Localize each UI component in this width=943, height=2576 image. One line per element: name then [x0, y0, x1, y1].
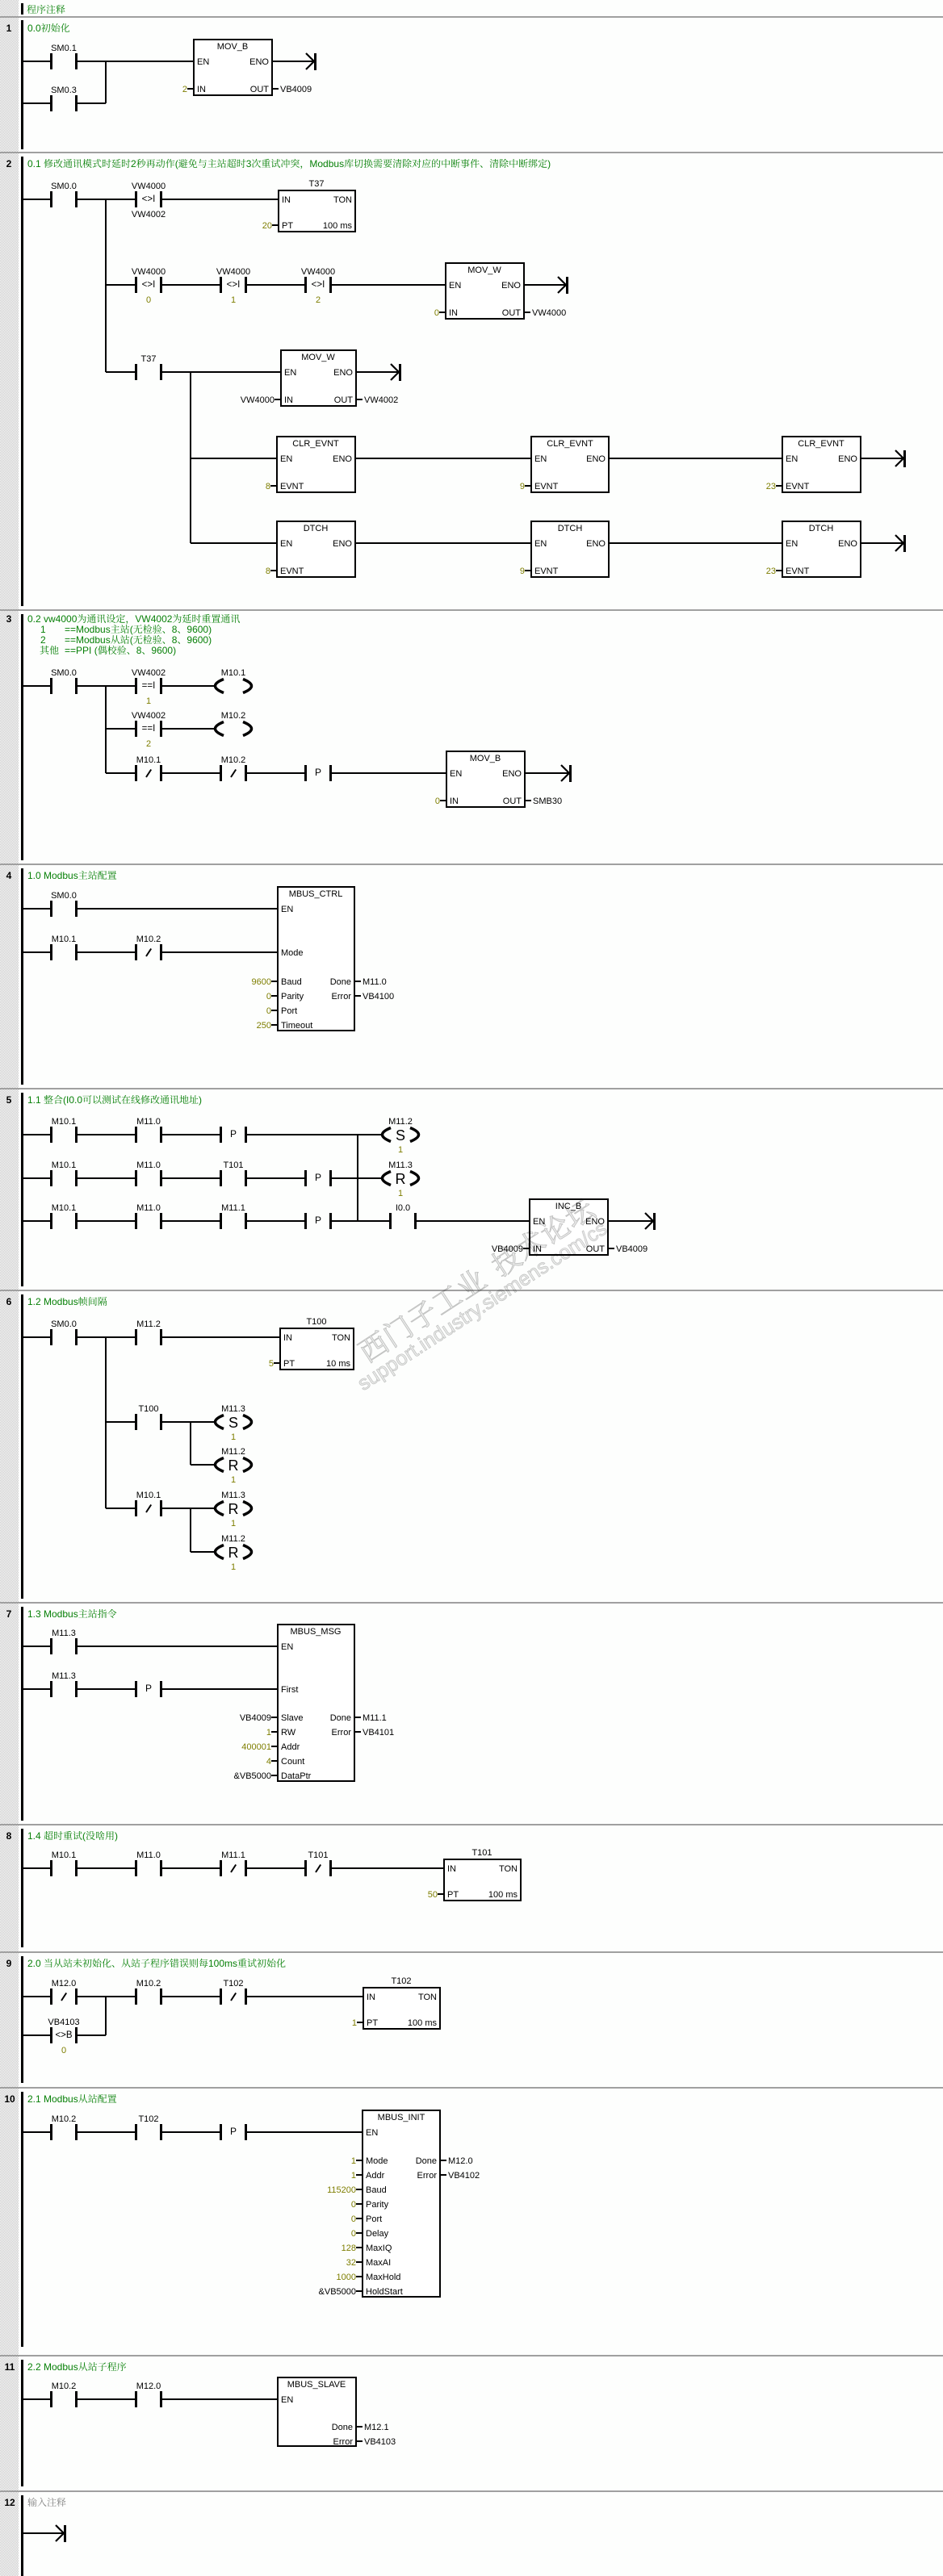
- svg-text:1.2 Modbus: 1.2 Modbus: [27, 1296, 78, 1307]
- svg-text:VB4009: VB4009: [616, 1244, 648, 1254]
- svg-text:First: First: [281, 1685, 298, 1695]
- svg-text:(I0.0: (I0.0: [63, 1094, 82, 1106]
- svg-text:VB4103: VB4103: [364, 2437, 396, 2447]
- svg-text:T100: T100: [306, 1317, 326, 1327]
- svg-text:MaxHold: MaxHold: [366, 2273, 400, 2282]
- svg-text:PT: PT: [367, 2018, 378, 2028]
- svg-text:Baud: Baud: [366, 2185, 387, 2195]
- svg-text:Error: Error: [332, 1728, 352, 1738]
- svg-text:9600): 9600): [151, 645, 176, 656]
- svg-text:R: R: [228, 1545, 239, 1561]
- svg-text:Parity: Parity: [366, 2200, 389, 2210]
- svg-text:8: 8: [266, 567, 270, 576]
- svg-text:400001: 400001: [241, 1742, 271, 1752]
- svg-text:2: 2: [40, 634, 46, 646]
- svg-text:M11.2: M11.2: [221, 1534, 245, 1544]
- svg-text:OUT: OUT: [503, 797, 522, 806]
- svg-text:9600): 9600): [187, 634, 212, 646]
- svg-text:P: P: [315, 1215, 321, 1226]
- svg-text:0: 0: [61, 2046, 66, 2055]
- svg-text:Port: Port: [281, 1006, 297, 1016]
- svg-text:ENO: ENO: [838, 454, 857, 464]
- svg-text:SM0.3: SM0.3: [51, 86, 77, 95]
- svg-text:SM0.1: SM0.1: [51, 44, 77, 53]
- svg-text:MOV_W: MOV_W: [467, 266, 501, 275]
- svg-text:ENO: ENO: [333, 539, 352, 549]
- svg-text:M10.2: M10.2: [136, 935, 161, 944]
- svg-text:ENO: ENO: [838, 539, 857, 549]
- svg-text:EN: EN: [280, 539, 292, 549]
- svg-text:SM0.0: SM0.0: [51, 1319, 77, 1329]
- svg-text:M11.3: M11.3: [388, 1160, 413, 1170]
- svg-text:T37: T37: [309, 179, 325, 189]
- svg-text:TON: TON: [332, 1333, 350, 1343]
- svg-text:VB4101: VB4101: [363, 1728, 394, 1738]
- svg-text:ENO: ENO: [333, 368, 353, 378]
- svg-text:MOV_B: MOV_B: [217, 42, 249, 52]
- svg-text:<>I: <>I: [227, 280, 241, 290]
- svg-text:1: 1: [40, 624, 46, 635]
- svg-text:T102: T102: [223, 1979, 243, 1988]
- svg-text:Done: Done: [332, 2423, 353, 2432]
- svg-text:IN: IN: [367, 1993, 375, 2002]
- svg-text:TON: TON: [418, 1993, 437, 2002]
- svg-text:M10.1: M10.1: [136, 1491, 161, 1500]
- svg-text:EN: EN: [280, 454, 292, 464]
- svg-text:SMB30: SMB30: [533, 797, 562, 806]
- svg-text:M11.0: M11.0: [136, 1850, 161, 1860]
- svg-text:1.3 Modbus: 1.3 Modbus: [27, 1608, 78, 1620]
- svg-text:VB4009: VB4009: [240, 1713, 271, 1723]
- svg-text:Done: Done: [330, 1713, 351, 1723]
- svg-text:Addr: Addr: [366, 2171, 385, 2181]
- svg-text:1: 1: [266, 1728, 271, 1738]
- svg-text:MBUS_CTRL: MBUS_CTRL: [289, 889, 343, 899]
- svg-text:2: 2: [146, 739, 151, 749]
- svg-text:EVNT: EVNT: [534, 482, 559, 491]
- svg-text:VB4102: VB4102: [448, 2171, 480, 2181]
- svg-text:Error: Error: [417, 2171, 438, 2181]
- svg-text:T102: T102: [138, 2114, 158, 2124]
- svg-text:DataPtr: DataPtr: [281, 1771, 312, 1781]
- svg-text:T102: T102: [391, 1976, 411, 1986]
- svg-text:I0.0: I0.0: [396, 1203, 410, 1213]
- svg-text:M11.2: M11.2: [136, 1319, 161, 1329]
- svg-text:ENO: ENO: [586, 454, 606, 464]
- svg-text:OUT: OUT: [334, 395, 354, 405]
- svg-text:Addr: Addr: [281, 1742, 300, 1752]
- svg-text:0: 0: [435, 797, 440, 806]
- svg-text:M11.2: M11.2: [388, 1117, 413, 1127]
- svg-text:R: R: [228, 1457, 239, 1474]
- svg-text:P: P: [145, 1683, 152, 1694]
- svg-text:DTCH: DTCH: [809, 524, 834, 533]
- svg-text:EN: EN: [450, 769, 462, 779]
- svg-text:EVNT: EVNT: [534, 567, 559, 576]
- svg-text:Modbus: Modbus: [309, 158, 344, 169]
- svg-text:ENO: ENO: [501, 281, 521, 291]
- svg-text:VW4000: VW4000: [132, 267, 166, 277]
- svg-text:<>I: <>I: [312, 280, 325, 290]
- svg-text:1: 1: [231, 1475, 236, 1485]
- svg-text:1: 1: [231, 1519, 236, 1528]
- svg-text:VW4000: VW4000: [132, 182, 166, 191]
- svg-text:9600): 9600): [187, 624, 212, 635]
- svg-text:MOV_W: MOV_W: [301, 353, 335, 362]
- svg-text:EN: EN: [281, 905, 293, 914]
- svg-text:23: 23: [766, 567, 776, 576]
- svg-text:0: 0: [434, 308, 439, 318]
- svg-text:0.2 vw4000: 0.2 vw4000: [27, 613, 78, 625]
- svg-text:TON: TON: [333, 195, 352, 205]
- svg-text:9600: 9600: [252, 977, 271, 987]
- svg-text:ENO: ENO: [249, 57, 269, 67]
- svg-text:6: 6: [6, 1296, 12, 1307]
- svg-text:M12.0: M12.0: [136, 2382, 161, 2391]
- svg-text:8: 8: [266, 482, 270, 491]
- svg-text:2: 2: [316, 295, 321, 305]
- svg-text:EN: EN: [281, 1642, 293, 1652]
- svg-text:100 ms: 100 ms: [408, 2018, 438, 2028]
- svg-text:EN: EN: [284, 368, 296, 378]
- svg-text:==Modbus: ==Modbus: [65, 624, 111, 635]
- svg-text:32: 32: [346, 2258, 356, 2268]
- svg-text:EN: EN: [366, 2128, 378, 2138]
- svg-text:EVNT: EVNT: [786, 567, 810, 576]
- svg-text:115200: 115200: [327, 2185, 356, 2195]
- svg-text:IN: IN: [447, 1864, 456, 1874]
- svg-text:M12.0: M12.0: [52, 1979, 77, 1988]
- svg-text:R: R: [396, 1171, 406, 1187]
- svg-text:ENO: ENO: [586, 539, 606, 549]
- svg-text:T100: T100: [138, 1404, 158, 1414]
- svg-text:EN: EN: [534, 454, 547, 464]
- svg-text:VW4002: VW4002: [132, 210, 166, 220]
- svg-text:20: 20: [262, 221, 272, 231]
- svg-text:1.0 Modbus: 1.0 Modbus: [27, 870, 78, 881]
- svg-text:(: (: [130, 624, 133, 635]
- svg-text:250: 250: [257, 1021, 271, 1031]
- svg-text:PT: PT: [283, 1359, 295, 1369]
- svg-text:Port: Port: [366, 2214, 382, 2224]
- svg-text:DTCH: DTCH: [304, 524, 329, 533]
- svg-text:M11.1: M11.1: [363, 1713, 387, 1723]
- svg-text:0.0: 0.0: [27, 23, 41, 34]
- svg-text:MOV_B: MOV_B: [470, 754, 501, 763]
- svg-text:0: 0: [266, 1006, 271, 1016]
- svg-text:HoldStart: HoldStart: [366, 2287, 403, 2297]
- svg-text:IN: IN: [450, 797, 459, 806]
- svg-text:EN: EN: [786, 454, 798, 464]
- svg-text:VB4100: VB4100: [363, 992, 394, 1002]
- svg-text:Timeout: Timeout: [281, 1021, 312, 1031]
- svg-text:==I: ==I: [142, 681, 156, 691]
- svg-text:7: 7: [6, 1608, 12, 1620]
- svg-text:Delay: Delay: [366, 2229, 389, 2239]
- svg-text:IN: IN: [283, 1333, 292, 1343]
- svg-text:23: 23: [766, 482, 776, 491]
- svg-text:VB4103: VB4103: [48, 2018, 79, 2027]
- svg-text:VW4000: VW4000: [241, 395, 275, 405]
- svg-text:M11.3: M11.3: [52, 1671, 76, 1681]
- svg-text:100ms: 100ms: [208, 1958, 237, 1969]
- svg-text:M11.0: M11.0: [136, 1203, 161, 1213]
- svg-text:8: 8: [172, 634, 178, 646]
- svg-text:): ): [115, 1830, 118, 1842]
- svg-text:9: 9: [520, 567, 525, 576]
- svg-text:P: P: [230, 2126, 237, 2137]
- svg-text:10 ms: 10 ms: [326, 1359, 350, 1369]
- svg-text:): ): [199, 1094, 202, 1106]
- svg-text:M11.1: M11.1: [221, 1850, 245, 1860]
- svg-text:128: 128: [342, 2244, 356, 2253]
- svg-text:9: 9: [6, 1958, 12, 1969]
- svg-text:Slave: Slave: [281, 1713, 304, 1723]
- svg-text:P: P: [230, 1128, 237, 1140]
- svg-text:0: 0: [266, 992, 271, 1002]
- svg-text:VW4002: VW4002: [132, 711, 166, 721]
- svg-text:MBUS_INIT: MBUS_INIT: [378, 2113, 425, 2122]
- svg-text:OUT: OUT: [250, 85, 270, 94]
- svg-text:VW4000: VW4000: [301, 267, 335, 277]
- svg-text:1: 1: [398, 1189, 403, 1198]
- svg-text:EN: EN: [197, 57, 209, 67]
- svg-text:CLR_EVNT: CLR_EVNT: [292, 439, 339, 449]
- svg-text:P: P: [315, 767, 321, 778]
- svg-text:VW4002: VW4002: [364, 395, 398, 405]
- svg-text:11: 11: [5, 2361, 15, 2373]
- svg-text:R: R: [228, 1501, 239, 1517]
- svg-text:<>I: <>I: [142, 280, 156, 290]
- svg-text:EN: EN: [534, 539, 547, 549]
- svg-text:M11.2: M11.2: [221, 1447, 245, 1457]
- svg-text:(: (: [82, 1830, 86, 1842]
- svg-text:9: 9: [520, 482, 525, 491]
- svg-text:M10.1: M10.1: [136, 755, 161, 765]
- svg-text:PT: PT: [447, 1890, 459, 1900]
- svg-text:8: 8: [136, 645, 142, 656]
- svg-text:OUT: OUT: [502, 308, 522, 318]
- svg-text:100 ms: 100 ms: [323, 221, 353, 231]
- svg-text:0: 0: [351, 2200, 356, 2210]
- svg-text:2: 2: [131, 158, 136, 169]
- svg-text:1: 1: [351, 2156, 356, 2166]
- svg-text:T101: T101: [223, 1160, 243, 1170]
- svg-text:0: 0: [351, 2214, 356, 2224]
- svg-text:EVNT: EVNT: [786, 482, 810, 491]
- svg-text:&VB5000: &VB5000: [319, 2287, 356, 2297]
- svg-text:SM0.0: SM0.0: [51, 668, 77, 678]
- svg-text:IN: IN: [197, 85, 206, 94]
- svg-text:M11.0: M11.0: [136, 1160, 161, 1170]
- svg-text:0.1: 0.1: [27, 158, 41, 169]
- svg-text:1000: 1000: [337, 2273, 356, 2282]
- svg-text:T37: T37: [141, 354, 157, 364]
- svg-text:M10.2: M10.2: [136, 1979, 161, 1988]
- svg-text:2.0: 2.0: [27, 1958, 41, 1969]
- svg-text:2: 2: [182, 85, 187, 94]
- svg-text:M11.1: M11.1: [221, 1203, 245, 1213]
- svg-text:8: 8: [172, 624, 178, 635]
- svg-text:2.2 Modbus: 2.2 Modbus: [27, 2361, 78, 2373]
- svg-text:M12.1: M12.1: [364, 2423, 389, 2432]
- svg-text:Mode: Mode: [366, 2156, 388, 2166]
- svg-text:IN: IN: [284, 395, 293, 405]
- svg-text:Error: Error: [333, 2437, 354, 2447]
- svg-text:1: 1: [351, 2171, 356, 2181]
- svg-text:Done: Done: [330, 977, 351, 987]
- svg-text:M11.3: M11.3: [52, 1629, 76, 1638]
- svg-text:3: 3: [6, 613, 12, 625]
- svg-text:1: 1: [146, 696, 151, 706]
- svg-text:1.4: 1.4: [27, 1830, 41, 1842]
- svg-text:EN: EN: [449, 281, 461, 291]
- svg-text:): ): [547, 158, 551, 169]
- svg-text:VW4002: VW4002: [132, 668, 166, 678]
- svg-text:RW: RW: [281, 1728, 296, 1738]
- svg-text:EVNT: EVNT: [280, 482, 304, 491]
- svg-text:Parity: Parity: [281, 992, 304, 1002]
- svg-text:T101: T101: [471, 1848, 492, 1858]
- svg-text:M11.3: M11.3: [221, 1404, 245, 1414]
- svg-text:1: 1: [231, 1562, 236, 1572]
- svg-text:==I: ==I: [142, 724, 156, 734]
- svg-text:EN: EN: [281, 2395, 293, 2405]
- svg-text:MaxAI: MaxAI: [366, 2258, 391, 2268]
- svg-text:S: S: [396, 1127, 405, 1144]
- svg-text:VW4000: VW4000: [216, 267, 250, 277]
- svg-text:P: P: [315, 1172, 321, 1183]
- svg-text:(: (: [130, 634, 133, 646]
- svg-text:0: 0: [146, 295, 151, 305]
- svg-text:ENO: ENO: [333, 454, 352, 464]
- svg-text:M10.1: M10.1: [52, 1203, 77, 1213]
- svg-text:M10.2: M10.2: [221, 755, 246, 765]
- svg-text:SM0.0: SM0.0: [51, 891, 77, 901]
- svg-text:2: 2: [6, 158, 12, 169]
- svg-text:M11.0: M11.0: [136, 1117, 161, 1127]
- svg-text:M10.2: M10.2: [221, 711, 246, 721]
- svg-text:M10.1: M10.1: [52, 1850, 77, 1860]
- svg-text:M10.1: M10.1: [52, 1160, 77, 1170]
- svg-text:MBUS_SLAVE: MBUS_SLAVE: [287, 2380, 346, 2390]
- svg-text:(: (: [175, 158, 178, 169]
- svg-text:&VB5000: &VB5000: [234, 1771, 271, 1781]
- svg-text:ENO: ENO: [502, 769, 522, 779]
- svg-text:8: 8: [6, 1830, 12, 1842]
- svg-text:M11.3: M11.3: [221, 1491, 245, 1500]
- svg-text:M11.0: M11.0: [363, 977, 387, 987]
- svg-text:3: 3: [246, 158, 252, 169]
- svg-text:TON: TON: [499, 1864, 518, 1874]
- svg-text:Mode: Mode: [281, 948, 304, 958]
- svg-text:Error: Error: [332, 992, 352, 1002]
- svg-text:M12.0: M12.0: [448, 2156, 473, 2166]
- svg-text:VB4009: VB4009: [280, 85, 312, 94]
- svg-text:1.1: 1.1: [27, 1094, 41, 1106]
- svg-text:<>B: <>B: [55, 2030, 72, 2040]
- svg-text:5: 5: [6, 1094, 12, 1106]
- svg-text:1: 1: [6, 23, 12, 34]
- svg-text:Baud: Baud: [281, 977, 302, 987]
- svg-text:Count: Count: [281, 1757, 304, 1767]
- svg-text:<>I: <>I: [142, 194, 156, 204]
- svg-text:1: 1: [398, 1145, 403, 1155]
- svg-text:T101: T101: [308, 1850, 328, 1860]
- svg-text:SM0.0: SM0.0: [51, 182, 77, 191]
- svg-text:M10.2: M10.2: [52, 2382, 77, 2391]
- svg-text:2.1 Modbus: 2.1 Modbus: [27, 2093, 78, 2105]
- svg-text:M10.1: M10.1: [52, 935, 77, 944]
- svg-text:==Modbus: ==Modbus: [65, 634, 111, 646]
- svg-text:4: 4: [266, 1757, 271, 1767]
- svg-text:1: 1: [352, 2018, 357, 2028]
- svg-text:S: S: [228, 1415, 238, 1431]
- svg-text:IN: IN: [449, 308, 458, 318]
- svg-text:CLR_EVNT: CLR_EVNT: [547, 439, 593, 449]
- svg-text:==PPI (: ==PPI (: [65, 645, 98, 656]
- svg-text:50: 50: [428, 1890, 438, 1900]
- svg-text:M10.1: M10.1: [52, 1117, 77, 1127]
- svg-text:M10.2: M10.2: [52, 2114, 77, 2124]
- svg-text:M10.1: M10.1: [221, 668, 246, 678]
- svg-text:CLR_EVNT: CLR_EVNT: [798, 439, 845, 449]
- svg-text:Done: Done: [416, 2156, 437, 2166]
- svg-text:5: 5: [269, 1359, 274, 1369]
- svg-text:VW4002: VW4002: [135, 613, 172, 625]
- svg-text:10: 10: [4, 2093, 15, 2105]
- svg-text:MaxIQ: MaxIQ: [366, 2244, 392, 2253]
- svg-text:IN: IN: [282, 195, 291, 205]
- svg-text:EN: EN: [786, 539, 798, 549]
- svg-text:MBUS_MSG: MBUS_MSG: [291, 1627, 342, 1637]
- svg-text:PT: PT: [282, 221, 293, 231]
- svg-text:DTCH: DTCH: [558, 524, 583, 533]
- svg-text:1: 1: [231, 1432, 236, 1442]
- svg-text:4: 4: [6, 870, 12, 881]
- svg-text:0: 0: [351, 2229, 356, 2239]
- svg-text:1: 1: [231, 295, 236, 305]
- svg-text:VW4000: VW4000: [532, 308, 566, 318]
- svg-text:12: 12: [4, 2497, 15, 2508]
- svg-text:100 ms: 100 ms: [488, 1890, 518, 1900]
- svg-text:EVNT: EVNT: [280, 567, 304, 576]
